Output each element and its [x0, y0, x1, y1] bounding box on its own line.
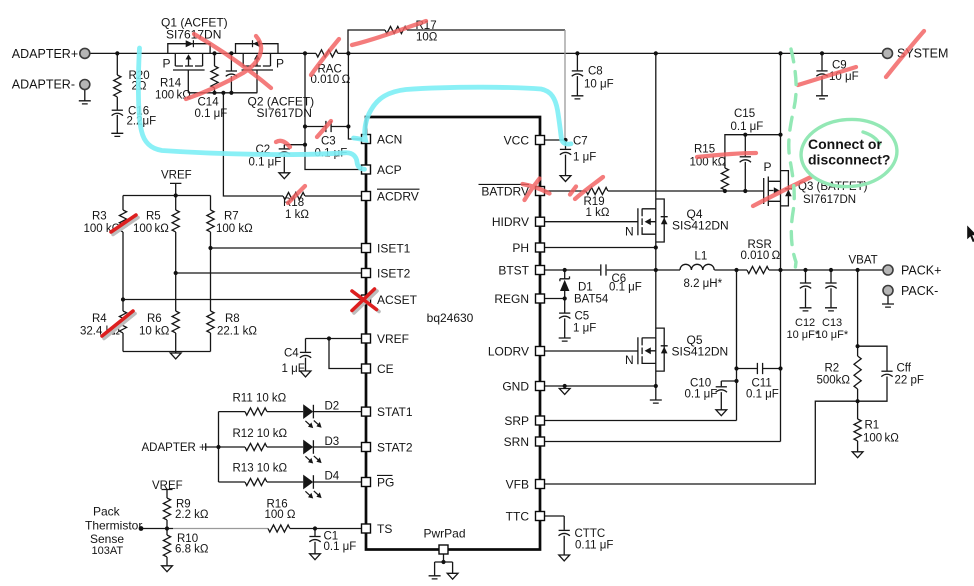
svg-text:ADAPTER+: ADAPTER+	[12, 47, 78, 61]
svg-text:N: N	[625, 225, 634, 239]
svg-text:Sense: Sense	[90, 532, 124, 546]
svg-text:TTC: TTC	[506, 509, 530, 523]
svg-text:C13: C13	[822, 317, 842, 329]
svg-text:100 kΩ: 100 kΩ	[133, 223, 169, 235]
svg-text:0.1 μF: 0.1 μF	[746, 389, 779, 401]
svg-text:CTTC: CTTC	[575, 528, 606, 540]
svg-text:CE: CE	[377, 362, 394, 376]
svg-text:ISET1: ISET1	[377, 241, 411, 255]
svg-text:LODRV: LODRV	[488, 344, 529, 358]
svg-text:ADAPTER +: ADAPTER +	[142, 442, 207, 454]
svg-text:VCC: VCC	[504, 133, 530, 147]
svg-text:disconnect?: disconnect?	[808, 152, 890, 168]
svg-text:bq24630: bq24630	[427, 311, 474, 325]
svg-text:10 μF: 10 μF	[584, 79, 614, 91]
svg-text:P: P	[276, 57, 284, 71]
svg-text:SIS412DN: SIS412DN	[672, 219, 729, 233]
svg-text:SRN: SRN	[504, 435, 529, 449]
svg-text:PwrPad: PwrPad	[424, 527, 466, 541]
svg-text:SI7617DN: SI7617DN	[257, 106, 312, 120]
svg-text:VREF: VREF	[377, 332, 409, 346]
svg-text:1 kΩ: 1 kΩ	[285, 209, 309, 221]
svg-text:0.1 μF: 0.1 μF	[324, 541, 357, 553]
svg-text:BAT54: BAT54	[574, 294, 609, 306]
svg-text:D1: D1	[578, 281, 593, 293]
svg-text:C3: C3	[321, 136, 336, 148]
svg-text:R13 10 kΩ: R13 10 kΩ	[233, 463, 288, 475]
svg-text:Pack: Pack	[93, 505, 121, 519]
svg-text:22 pF: 22 pF	[895, 375, 924, 387]
svg-text:10 kΩ: 10 kΩ	[139, 326, 170, 338]
svg-text:D3: D3	[325, 436, 340, 448]
svg-text:STAT1: STAT1	[377, 405, 413, 419]
svg-text:GND: GND	[502, 379, 529, 393]
svg-text:P: P	[764, 160, 772, 174]
svg-text:PACK+: PACK+	[901, 263, 941, 277]
svg-text:R4: R4	[92, 313, 107, 325]
svg-text:L1: L1	[695, 251, 708, 263]
svg-text:D4: D4	[325, 471, 340, 483]
svg-text:ACDRV: ACDRV	[377, 189, 419, 203]
svg-text:C5: C5	[575, 311, 590, 323]
svg-text:R11 10 kΩ: R11 10 kΩ	[233, 393, 287, 405]
svg-text:100 kΩ: 100 kΩ	[690, 157, 727, 169]
svg-text:R2: R2	[825, 363, 840, 375]
svg-text:ADAPTER-: ADAPTER-	[12, 78, 75, 92]
svg-text:Thermistor: Thermistor	[85, 519, 142, 533]
svg-text:C7: C7	[573, 136, 588, 148]
svg-text:STAT2: STAT2	[377, 440, 413, 454]
svg-text:D2: D2	[325, 401, 340, 413]
svg-text:R1: R1	[865, 420, 880, 432]
svg-text:0.11 μF: 0.11 μF	[575, 540, 613, 552]
svg-text:10 μF*: 10 μF*	[816, 329, 849, 341]
svg-text:0.010 Ω: 0.010 Ω	[311, 74, 351, 86]
svg-text:1 μF: 1 μF	[282, 363, 305, 375]
svg-text:C4: C4	[284, 348, 299, 360]
svg-text:R12 10 kΩ: R12 10 kΩ	[233, 428, 288, 440]
svg-text:N: N	[625, 353, 634, 367]
svg-text:PACK-: PACK-	[901, 284, 938, 298]
svg-text:BTST: BTST	[498, 263, 529, 277]
svg-text:PG: PG	[377, 475, 394, 489]
svg-text:0.010 Ω: 0.010 Ω	[741, 250, 781, 262]
svg-text:P: P	[163, 57, 171, 71]
svg-text:0.1 μF: 0.1 μF	[609, 282, 642, 294]
svg-text:22.1 kΩ: 22.1 kΩ	[217, 326, 257, 338]
svg-text:100 Ω: 100 Ω	[265, 509, 296, 521]
svg-text:8.2 μH*: 8.2 μH*	[684, 278, 723, 290]
svg-text:PH: PH	[512, 241, 529, 255]
svg-text:SIS412DN: SIS412DN	[672, 345, 729, 359]
svg-text:C12: C12	[795, 317, 815, 329]
svg-text:HIDRV: HIDRV	[492, 215, 529, 229]
svg-text:ACSET: ACSET	[377, 293, 418, 307]
svg-text:R7: R7	[224, 211, 239, 223]
svg-text:1 μF: 1 μF	[573, 152, 596, 164]
svg-text:ISET2: ISET2	[377, 266, 411, 280]
svg-text:C15: C15	[734, 108, 755, 120]
svg-text:0.1 μF: 0.1 μF	[731, 121, 764, 133]
svg-text:0.1 μF: 0.1 μF	[195, 108, 228, 120]
svg-text:TS: TS	[377, 522, 392, 536]
svg-text:REGN: REGN	[494, 292, 529, 306]
svg-text:103AT: 103AT	[92, 545, 124, 557]
svg-text:SRP: SRP	[504, 414, 529, 428]
svg-text:VFB: VFB	[506, 477, 529, 491]
svg-text:BATDRV: BATDRV	[481, 184, 529, 198]
svg-text:C14: C14	[198, 97, 220, 109]
svg-text:0.1 μF: 0.1 μF	[249, 157, 282, 169]
svg-text:ACP: ACP	[377, 163, 402, 177]
svg-text:Cff: Cff	[897, 363, 912, 375]
svg-text:SI7617DN: SI7617DN	[803, 194, 856, 206]
svg-text:R6: R6	[147, 313, 162, 325]
svg-text:10Ω: 10Ω	[416, 31, 438, 43]
svg-text:VREF: VREF	[161, 170, 192, 182]
svg-text:500kΩ: 500kΩ	[817, 375, 851, 387]
svg-text:1 μF: 1 μF	[573, 323, 596, 335]
svg-text:2.2 kΩ: 2.2 kΩ	[175, 509, 209, 521]
svg-text:100 kΩ: 100 kΩ	[863, 433, 899, 445]
svg-text:100 kΩ: 100 kΩ	[216, 223, 253, 235]
svg-text:0.1 μF: 0.1 μF	[685, 389, 718, 401]
svg-text:C8: C8	[588, 66, 603, 78]
svg-text:R8: R8	[225, 313, 240, 325]
svg-text:R14: R14	[160, 78, 182, 90]
svg-text:VBAT: VBAT	[849, 255, 878, 267]
svg-text:VREF: VREF	[152, 480, 183, 492]
svg-text:Connect or: Connect or	[808, 136, 882, 152]
svg-text:ACN: ACN	[377, 132, 402, 146]
svg-text:R5: R5	[146, 211, 161, 223]
svg-text:R3: R3	[92, 211, 107, 223]
svg-text:1 kΩ: 1 kΩ	[586, 207, 610, 219]
svg-text:6.8 kΩ: 6.8 kΩ	[175, 544, 209, 556]
